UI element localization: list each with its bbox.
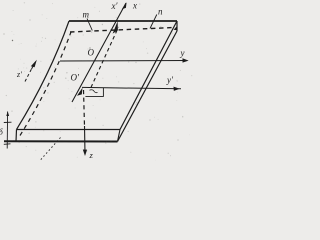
squiggle inside right angle box bbox=[90, 90, 98, 93]
svg-text:z: z bbox=[89, 150, 94, 160]
z' arrow shaft solid tip part bbox=[32, 62, 36, 70]
background paper bbox=[0, 0, 194, 162]
z axis solid part bbox=[84, 126, 87, 154]
plate back right vertical edge bbox=[176, 21, 178, 31]
svg-text:y: y bbox=[180, 48, 185, 58]
svg-text:x: x bbox=[132, 0, 137, 10]
plate front right vertical edge bbox=[118, 130, 121, 142]
plate right bottom edge bbox=[118, 31, 178, 142]
x axis line (through O and O', collinear) bbox=[72, 3, 126, 102]
arrowhead of x' at plate top edge bbox=[113, 21, 118, 33]
x axis dotted tail below plate bbox=[40, 138, 61, 161]
svg-text:y′: y′ bbox=[166, 75, 174, 85]
svg-text:z′: z′ bbox=[16, 70, 22, 79]
arrowhead of z' arrow bbox=[31, 60, 37, 67]
y axis bbox=[60, 60, 188, 63]
thickness dimension top tick bbox=[4, 121, 12, 123]
arrowhead on x line at O' bbox=[77, 88, 83, 96]
right angle box at O' bbox=[85, 88, 103, 97]
svg-text:δ: δ bbox=[0, 128, 3, 137]
diagram: thin rectangular plate in oblique projection with inertia axes bbox=[0, 0, 194, 162]
z' arrow shaft (dashed) bbox=[25, 69, 32, 82]
arrowhead of z axis bbox=[83, 150, 87, 157]
svg-text:O′: O′ bbox=[71, 73, 80, 83]
svg-text:x′: x′ bbox=[111, 1, 119, 11]
thickness dimension bottom tick bbox=[4, 143, 11, 146]
plate right top edge bbox=[120, 21, 177, 130]
y' axis bbox=[82, 87, 181, 88]
leader line for n bbox=[150, 15, 157, 29]
arrowhead of x at top bbox=[122, 2, 127, 9]
arrowhead of y axis bbox=[183, 58, 189, 62]
plate left edge bbox=[17, 21, 70, 130]
plate front left vertical edge bbox=[15, 130, 18, 142]
dark junction blob at plate back right corner bbox=[174, 26, 178, 30]
scan noise speckles bbox=[4, 2, 193, 160]
plate front top edge bbox=[17, 129, 121, 131]
leader line for m bbox=[87, 19, 92, 31]
plate front bottom edge (extended left for dimension) bbox=[4, 140, 118, 142]
hidden bottom back edge (dashed) bbox=[70, 28, 174, 33]
hidden bottom left edge (dashed) bbox=[20, 32, 71, 136]
thickness dimension vertical line bbox=[6, 112, 8, 149]
z axis dashed part bbox=[84, 90, 85, 126]
plate top back edge bbox=[69, 20, 177, 22]
arrowhead of thickness dimension (up) bbox=[6, 111, 9, 116]
x' hidden axis (dashed slant right of x) bbox=[91, 27, 119, 87]
svg-text:n: n bbox=[158, 7, 163, 17]
svg-text:O: O bbox=[88, 48, 95, 58]
arrowhead of y' axis bbox=[174, 87, 180, 91]
svg-text:m: m bbox=[83, 10, 90, 20]
